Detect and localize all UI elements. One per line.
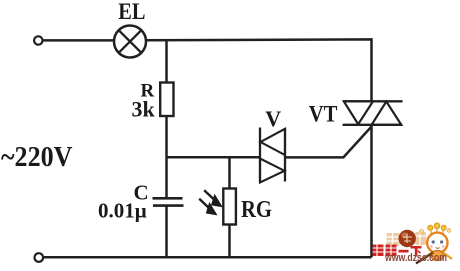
svg-text:EL: EL	[118, 0, 145, 24]
svg-text:3k: 3k	[132, 97, 156, 122]
svg-text:www.dzsc.com: www.dzsc.com	[384, 252, 447, 264]
svg-text:~220V: ~220V	[1, 142, 73, 173]
svg-text:VT: VT	[309, 102, 338, 127]
svg-text:0.01μ: 0.01μ	[98, 199, 147, 223]
svg-text:V: V	[265, 106, 281, 131]
svg-text:RG: RG	[241, 197, 272, 223]
